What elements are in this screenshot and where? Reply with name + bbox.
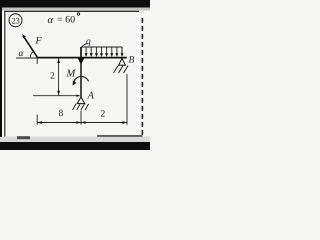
svg-text:2: 2 — [101, 110, 106, 120]
svg-text:8: 8 — [59, 109, 64, 119]
svg-text:F: F — [35, 36, 43, 47]
svg-text:M: M — [66, 69, 77, 80]
svg-text:q: q — [86, 37, 91, 47]
svg-text:2: 2 — [50, 72, 55, 82]
svg-text:α: α — [48, 15, 54, 26]
svg-text:23: 23 — [12, 15, 20, 25]
svg-text:A: A — [87, 91, 95, 102]
svg-text:B: B — [129, 56, 135, 66]
svg-text:= 60: = 60 — [57, 15, 75, 26]
